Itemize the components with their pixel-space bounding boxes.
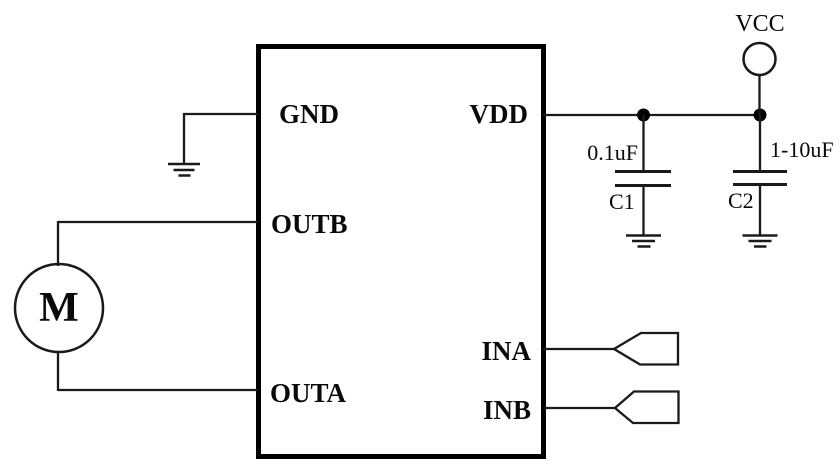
ground (left GND symbol) — [168, 164, 200, 176]
wire node to C1 — [642, 115, 644, 171]
wire OUTB horizontal — [58, 221, 258, 223]
svg-text:OUTB: OUTB — [271, 209, 348, 239]
wire VDD horizontal — [543, 114, 760, 116]
svg-text:INA: INA — [481, 336, 531, 366]
wire GND horizontal — [184, 113, 258, 115]
wire C2 to ground — [759, 185, 761, 235]
node junction dot at VCC — [754, 109, 767, 122]
capacitor C2 plates — [733, 172, 787, 185]
wire OUTA horizontal — [58, 389, 258, 391]
ground (C1) — [626, 236, 661, 247]
wire GND vertical — [183, 113, 185, 164]
INB input connector — [615, 392, 679, 424]
wire node to C2 — [759, 115, 761, 171]
VCC terminal circle — [744, 43, 776, 75]
svg-text:VCC: VCC — [735, 11, 784, 37]
wire motor to OUTA vertical — [57, 351, 59, 391]
svg-text:0.1uF: 0.1uF — [587, 140, 638, 165]
svg-text:OUTA: OUTA — [270, 378, 347, 408]
svg-text:VDD: VDD — [470, 99, 529, 129]
wire INA — [543, 348, 614, 350]
wire C1 to ground — [642, 186, 644, 235]
motor M1 circle — [15, 264, 103, 352]
svg-text:M: M — [39, 285, 79, 331]
op-amp U1 (driver IC body) — [259, 47, 544, 457]
svg-text:C2: C2 — [728, 188, 754, 213]
INA input connector — [614, 333, 678, 365]
svg-text:1-10uF: 1-10uF — [770, 137, 834, 162]
svg-text:C1: C1 — [609, 189, 635, 214]
wire VCC to node — [758, 75, 760, 115]
svg-text:INB: INB — [483, 395, 531, 425]
node junction dot at C1 — [637, 109, 650, 122]
wire INB — [543, 407, 615, 409]
ground (C2) — [743, 236, 778, 247]
capacitor C1 plates — [615, 172, 671, 186]
wire OUTB to motor vertical — [57, 221, 59, 266]
svg-text:GND: GND — [279, 99, 339, 129]
